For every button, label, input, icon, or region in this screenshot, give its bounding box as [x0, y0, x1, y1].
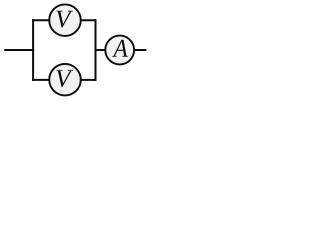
wire right junction vertical [95, 19, 97, 81]
wire voltmeter V2 to bottom-right [81, 79, 97, 81]
voltmeter V2 body [49, 64, 81, 96]
ammeter A1 body [105, 36, 134, 65]
voltmeter V1 body [49, 4, 81, 36]
wire bottom-left branch to voltmeter V2 [32, 79, 50, 81]
wire voltmeter V1 to top-right [81, 19, 97, 21]
wire top-left branch to voltmeter V1 [32, 19, 50, 21]
voltmeter V1 label V [56, 11, 73, 28]
voltmeter V2 label V [56, 70, 73, 87]
wire right junction to ammeter A1 [95, 49, 106, 51]
ammeter A1 label A [112, 40, 128, 57]
wire right lead [134, 49, 147, 51]
wire left junction vertical [32, 19, 34, 81]
wire left lead [4, 49, 34, 51]
